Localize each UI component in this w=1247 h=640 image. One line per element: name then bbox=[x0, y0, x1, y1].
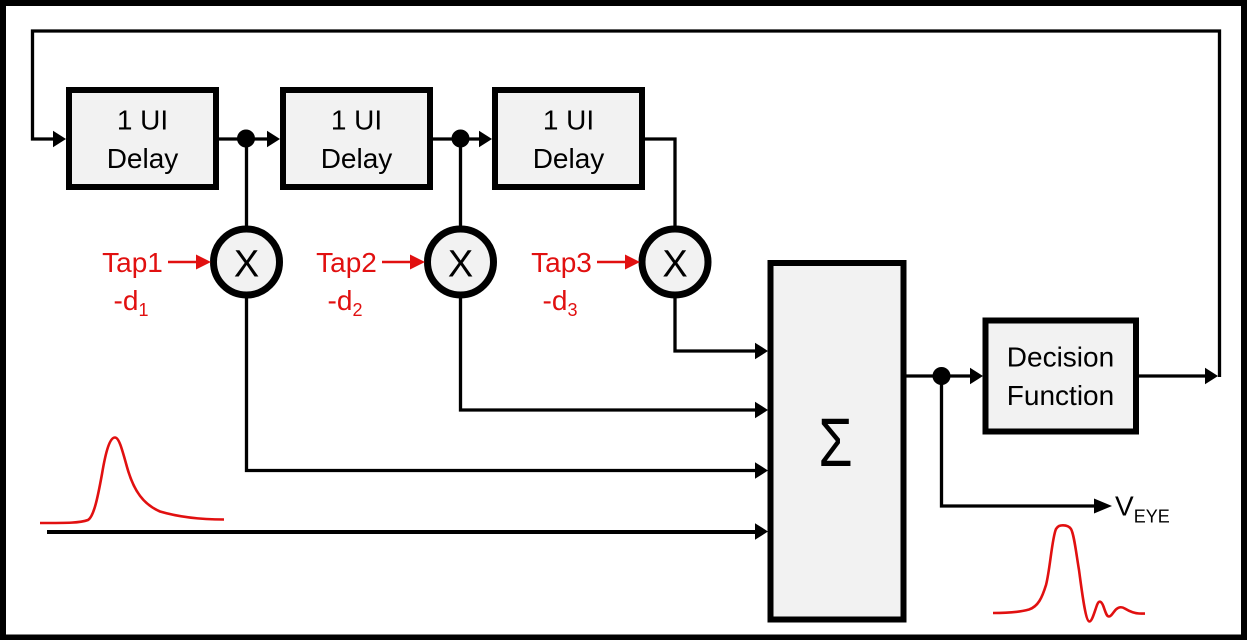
wire D3 output down to multiplier M3 bbox=[645, 139, 675, 228]
wire M3 output to summer input 1 bbox=[675, 295, 755, 351]
arrowhead into delay D3 bbox=[479, 131, 492, 148]
svg-text:Delay: Delay bbox=[107, 143, 179, 174]
node junction J2 bbox=[452, 130, 470, 148]
svg-text:X: X bbox=[234, 244, 259, 286]
wire J3 down and right to Veye bbox=[942, 376, 1096, 506]
svg-text:1 UI: 1 UI bbox=[543, 105, 594, 136]
wire D2 output to D3 bbox=[433, 137, 480, 140]
multiplier M1 (X) bbox=[214, 229, 280, 295]
delay block D3 (1 UI Delay) bbox=[495, 90, 642, 187]
svg-text:1 UI: 1 UI bbox=[331, 105, 382, 136]
svg-text:-d3: -d3 bbox=[543, 285, 578, 320]
svg-text:Function: Function bbox=[1007, 380, 1114, 411]
decision function block U2 bbox=[986, 321, 1137, 432]
multiplier M3 (X) bbox=[642, 229, 708, 295]
arrowhead into delay D1 input bbox=[53, 131, 66, 148]
waveform output pulse bbox=[993, 525, 1145, 621]
svg-text:X: X bbox=[448, 244, 473, 286]
svg-text:Tap2: Tap2 bbox=[316, 247, 377, 278]
wire J1 down to multiplier M1 bbox=[245, 139, 248, 228]
svg-text:X: X bbox=[662, 244, 687, 286]
svg-text:Decision: Decision bbox=[1007, 342, 1114, 373]
svg-text:Delay: Delay bbox=[321, 143, 393, 174]
arrowhead into delay D2 bbox=[267, 131, 280, 148]
svg-text:-d2: -d2 bbox=[328, 285, 363, 320]
svg-text:Tap3: Tap3 bbox=[531, 247, 592, 278]
svg-text:Tap1: Tap1 bbox=[102, 247, 163, 278]
wire main input line to summer input 4 bbox=[47, 530, 756, 534]
delay block D1 (1 UI Delay) bbox=[69, 90, 216, 187]
wire decision function output to feedback line bbox=[1138, 374, 1206, 377]
wire feedback loop (right vertical, top horizontal, left vertical) bbox=[33, 31, 1220, 377]
node junction J3 bbox=[933, 367, 951, 385]
wire summer output to decision function bbox=[902, 374, 971, 377]
svg-text:Σ: Σ bbox=[818, 404, 852, 481]
wire M1 output to summer input 3 bbox=[247, 295, 756, 471]
svg-text:-d1: -d1 bbox=[114, 285, 149, 320]
svg-text:Delay: Delay bbox=[533, 143, 605, 174]
svg-text:1 UI: 1 UI bbox=[117, 105, 168, 136]
wire J2 down to multiplier M2 bbox=[459, 139, 462, 228]
wire Tap2 arrow bbox=[382, 261, 411, 264]
wire D1 output to D2 bbox=[219, 137, 268, 140]
multiplier M2 (X) bbox=[428, 229, 494, 295]
delay block D2 (1 UI Delay) bbox=[283, 90, 430, 187]
wire Tap1 arrow bbox=[168, 261, 197, 264]
wire M2 output to summer input 2 bbox=[461, 295, 756, 410]
summer U1 (sigma) bbox=[771, 263, 904, 620]
svg-text:VEYE: VEYE bbox=[1115, 491, 1170, 527]
waveform input pulse bbox=[40, 438, 224, 524]
wire Tap3 arrow bbox=[597, 261, 626, 264]
node junction J1 bbox=[237, 130, 255, 148]
